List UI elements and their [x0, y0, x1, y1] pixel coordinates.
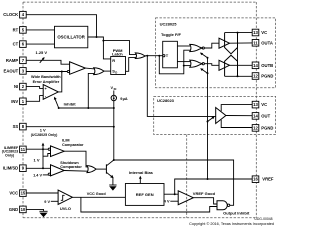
wire 4V to VREF good comparator [170, 200, 178, 202]
UC28025 dashed sub-box [156, 18, 276, 88]
svg-text:Internal Bias: Internal Bias [129, 170, 154, 175]
current source 9uA [111, 86, 128, 101]
wire CLOCK to oscillator output node [26, 15, 96, 37]
wire OR U3 output to toggle flip-flop T input [145, 55, 162, 57]
node collector-inhibit junction [113, 159, 115, 161]
wire VCC Good to output inhibit NAND [81, 197, 217, 212]
svg-text:R: R [112, 58, 115, 63]
pin ILIMREF 11 [2, 146, 26, 158]
wire gate U6 to driver A [204, 43, 219, 48]
svg-text:Comparator: Comparator [60, 165, 82, 169]
node drive pulse junction [183, 65, 185, 67]
svg-text:1 V: 1 V [33, 157, 39, 162]
wire oscillator output / clock bus [88, 37, 104, 41]
node osc-clock junction [96, 36, 98, 38]
svg-text:Error Amplifier: Error Amplifier [33, 80, 60, 84]
node gate A arrow takeoff [207, 57, 209, 59]
node ILIMREF junction [42, 148, 44, 150]
node inhibit-EA junction [58, 107, 60, 109]
wire drive pulse to output gates [159, 50, 190, 74]
svg-text:13: 13 [253, 102, 258, 107]
PWM comparator [67, 62, 85, 75]
pin NI 2 [14, 83, 26, 90]
wire driver B output to pin OUTB [230, 64, 253, 66]
shutdown comparator U9 [48, 161, 82, 176]
svg-text:Wide Bandwidth: Wide Bandwidth [31, 75, 61, 79]
wire toggle Qbar to gate U7 [177, 61, 190, 63]
svg-text:Comparator: Comparator [62, 143, 84, 147]
svg-text:OUTA: OUTA [261, 40, 273, 45]
svg-text:UDG-00048: UDG-00048 [254, 217, 272, 221]
1V reference arrow up [42, 143, 45, 146]
wire error amp output to PWM comparator [58, 72, 62, 92]
wire SS pin to junction [26, 126, 114, 128]
wire emitter to ground [112, 178, 114, 185]
svg-text:10: 10 [21, 207, 26, 212]
oscillator block [55, 26, 88, 48]
svg-text:ILIM/SD: ILIM/SD [3, 166, 18, 171]
wire 9V to UVLO [51, 200, 58, 202]
svg-text:UC28023: UC28023 [157, 98, 175, 103]
svg-text:13: 13 [253, 30, 258, 35]
wire PWM comparator output to OR gate U2 [85, 67, 94, 70]
svg-text:UC28025: UC28025 [160, 22, 178, 27]
output inhibit NAND gate U12 [217, 201, 250, 216]
toggle flip-flop U5 [161, 32, 181, 68]
svg-text:15: 15 [21, 191, 26, 196]
OR gate U10 (fault OR) [87, 166, 96, 173]
node drive branch to UC28023 [146, 55, 148, 57]
pin PGND 12 (UC28025) [252, 73, 273, 80]
UC28023 dashed sub-box [154, 96, 276, 134]
arrow into UC28023 driver [208, 116, 215, 121]
node VREF-inhibit vertical junction [207, 178, 209, 180]
wire drive pulse branch to gate U7 [184, 65, 191, 67]
svg-text:PGND: PGND [261, 74, 273, 79]
svg-text:Output Inhibit: Output Inhibit [223, 210, 250, 215]
wire NI to error amp [26, 87, 43, 89]
svg-text:D: D [115, 70, 117, 74]
svg-text:9 V: 9 V [44, 200, 50, 204]
wire gate supply vertical [207, 58, 209, 179]
OR gate U3 (toggle drive OR) [135, 53, 145, 59]
svg-text:12: 12 [253, 74, 258, 79]
NOR gate U6 (OUTA) [190, 44, 205, 51]
wire 1.4V to shutdown comparator [43, 174, 48, 176]
ground (GND pin) [39, 211, 47, 217]
REF GEN block [125, 184, 164, 206]
wire clock to OR gate U3 upper input [103, 41, 136, 55]
pin OUT 14 (UC28023) [252, 113, 270, 120]
pin SS 8 [13, 123, 27, 130]
svg-text:GND: GND [9, 207, 18, 212]
wire ILIMREF to ILIM comparator [26, 148, 48, 150]
svg-text:SS: SS [13, 124, 19, 129]
pin OUTB 14 [252, 62, 273, 69]
wire inhibit bus horizontal [59, 107, 114, 109]
svg-text:UVLO: UVLO [60, 206, 71, 211]
wire CT to oscillator [26, 43, 54, 45]
svg-text:Toggle F/F: Toggle F/F [161, 32, 181, 37]
node clock branch junction [102, 40, 104, 42]
output driver B [219, 55, 238, 76]
wire VC rail to pin 13 [225, 32, 253, 34]
node PGND rail [237, 75, 239, 77]
node VREF junction [174, 193, 176, 195]
svg-text:VCC: VCC [9, 191, 18, 196]
IC boundary dashed rectangle [23, 2, 256, 218]
wire gate U7 to driver B [204, 64, 219, 66]
svg-text:16: 16 [253, 177, 258, 182]
pin OUTA 11 [252, 40, 273, 47]
wire 1V reference vertical [42, 145, 44, 168]
wire OR U10 output to transistor base [96, 168, 106, 170]
svg-text:1.4 V: 1.4 V [33, 173, 42, 177]
wire current source to SS / inhibit vertical [113, 101, 115, 160]
svg-text:1 V: 1 V [40, 128, 46, 133]
output driver A [219, 33, 238, 54]
UVLO comparator [58, 190, 72, 211]
UC28023 output driver [216, 108, 226, 124]
wire driver A output to pin OUTA [230, 42, 253, 44]
svg-text:VC: VC [261, 30, 267, 35]
svg-text:1.25 V: 1.25 V [36, 50, 48, 55]
wire RT to oscillator [26, 29, 54, 31]
ILIM comparator U8 [48, 139, 84, 157]
Internal Bias label and arrow [129, 170, 154, 184]
svg-text:RAMP: RAMP [6, 58, 19, 63]
wire VREF to pin 16 [175, 179, 253, 194]
wire UC28023 driver output to pin OUT [226, 115, 252, 117]
svg-text:CLOCK: CLOCK [3, 12, 18, 17]
svg-text:Only): Only) [5, 154, 15, 158]
node ILIM/SD junction [42, 167, 44, 169]
svg-text:Inhibit: Inhibit [64, 102, 77, 107]
pin CT 6 [13, 41, 27, 48]
OR gate U2 (PWM comparator OR) [94, 68, 104, 75]
wire clock to PWM latch R input [103, 41, 110, 59]
inhibit arrow into error amp [54, 97, 59, 108]
node inhibit-OR junction [87, 107, 89, 109]
pin INV 1 [11, 98, 26, 105]
svg-text:VREF: VREF [262, 177, 274, 182]
pin PGND 12 (UC28023) [252, 125, 273, 132]
wire VC to UC28023 driver [221, 105, 252, 112]
wire INV to error amp [26, 96, 43, 102]
VREF Good comparator U11 [178, 191, 215, 205]
node SS junction [113, 126, 115, 128]
wire PGND rail to pin 12 [225, 75, 253, 77]
svg-text:RT: RT [13, 27, 19, 32]
svg-text:12: 12 [253, 125, 258, 130]
wire driver rail vertical [237, 33, 239, 77]
wire 1V to ILIM comparator lower input [43, 154, 51, 157]
wire GND to ground [26, 209, 43, 211]
ground (transistor emitter) [109, 185, 116, 191]
svg-text:OUTB: OUTB [261, 63, 273, 68]
pin CLOCK 4 [3, 11, 26, 18]
svg-text:NI: NI [14, 84, 18, 89]
wire toggle Q to gate U6 [177, 45, 190, 47]
wire ILIM/SD to shutdown comparator [26, 167, 50, 169]
pin VC 13 (UC28023) [252, 101, 267, 108]
wire ILIM comparator output to OR gate U10 [64, 151, 88, 167]
svg-text:14: 14 [253, 63, 258, 68]
switch arrow on RAMP wire [40, 57, 45, 63]
pin VCC 15 [9, 190, 26, 197]
node EAOUT junction [61, 71, 63, 73]
svg-text:PGND: PGND [261, 125, 273, 130]
svg-text:Latch: Latch [112, 52, 123, 57]
svg-text:Copyright © 2016, Texas Instru: Copyright © 2016, Texas Instruments Inco… [189, 222, 274, 226]
pin VREF 16 [252, 176, 274, 183]
node VC rail [237, 32, 239, 34]
svg-text:11: 11 [253, 40, 258, 45]
node drive branch to output gates [158, 55, 160, 57]
svg-text:VREF Good: VREF Good [193, 191, 216, 196]
svg-text:μA: μA [123, 97, 128, 101]
svg-text:OUT: OUT [261, 113, 270, 118]
svg-text:VCC Good: VCC Good [87, 192, 107, 196]
wire RAMP to PWM comparator [26, 60, 69, 64]
node current source - inhibit [113, 107, 115, 109]
wire shutdown comparator output to OR gate U10 [64, 170, 88, 173]
1 V (UC28025 Only) reference label [31, 128, 58, 137]
PWM latch U4 [111, 48, 126, 75]
pin RAMP 7 [6, 57, 26, 64]
svg-text:IN: IN [114, 87, 117, 91]
pin EAOUT 3 [4, 68, 27, 75]
NOR gate U7 (OUTB) [190, 60, 205, 67]
wire UVLO output (VCC Good) to REF GEN [72, 196, 125, 198]
wire VREF good output to NAND [193, 198, 217, 204]
svg-text:(UC28025 Only): (UC28025 Only) [31, 133, 58, 137]
wire REF GEN output [164, 193, 178, 195]
wire latch output to OR gate U3 lower input [126, 58, 137, 72]
arrow into gate U6 [200, 53, 208, 58]
pin GND 10 [9, 206, 26, 213]
wire drive signal to UC28023 driver [147, 56, 215, 117]
wire EAOUT to PWM comparator inverting input [26, 71, 67, 73]
wire output inhibit bus [114, 160, 234, 205]
arrow into gate U7 [200, 68, 207, 73]
pin RT 5 [13, 27, 27, 34]
svg-text:VC: VC [261, 102, 267, 107]
transistor Q1 [106, 160, 113, 178]
svg-text:CT: CT [13, 42, 19, 47]
wire OR U2 output to latch S input [104, 70, 111, 72]
svg-text:4 V: 4 V [164, 200, 170, 204]
svg-text:14: 14 [253, 113, 258, 118]
wire VCC to UVLO [26, 192, 58, 194]
pin ILIM/SD 9 [3, 165, 26, 172]
svg-text:REF GEN: REF GEN [136, 192, 154, 197]
error amplifier U1 [31, 75, 61, 99]
svg-text:INV: INV [11, 99, 18, 104]
node gate B arrow takeoff [207, 72, 209, 74]
pin VC 13 (UC28025) [252, 29, 267, 36]
wire UC28023 driver to PGND [221, 120, 252, 128]
svg-text:OSCILLATOR: OSCILLATOR [57, 35, 85, 40]
node UC28023 arrow takeoff [207, 121, 209, 123]
svg-text:EAOUT: EAOUT [4, 68, 19, 73]
svg-text:11: 11 [21, 147, 26, 152]
wire inhibit to OR gate U2 lower input [88, 73, 94, 108]
